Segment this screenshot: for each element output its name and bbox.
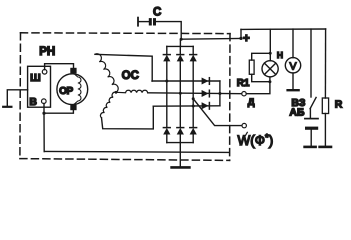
wire ground stem (179, 143, 181, 167)
svg-text:В: В (29, 96, 37, 108)
wire phase C row (153, 105, 220, 107)
ground (regulator) (3, 106, 11, 108)
ground (voltmeter) (288, 89, 299, 91)
wire phase B vertical (179, 61, 181, 127)
svg-text:Ш: Ш (30, 72, 41, 84)
diode VD3 (top right) (190, 46, 197, 61)
capacitor C1 body (149, 18, 156, 25)
svg-text:С: С (153, 7, 161, 19)
wire phase A vertical (166, 61, 168, 127)
wire phase B row (148, 92, 242, 95)
diode VD9 (field, bottom) (202, 102, 210, 109)
wire C left lead (139, 21, 150, 23)
stator winding ОС phase B coil (116, 90, 148, 92)
switch ВЗ (310, 29, 316, 118)
node phase B junction (179, 92, 182, 95)
diode VD5 (bottom middle) (177, 128, 184, 143)
ground (resistor R) (320, 146, 331, 149)
capacitor C1 left terminal bar (137, 18, 139, 26)
wire rail to R (324, 29, 326, 98)
svg-text:R1: R1 (237, 78, 250, 89)
resistor R1 (249, 60, 254, 74)
ground (generator) (172, 166, 190, 169)
diode VD1 (top left) (163, 46, 170, 61)
diode VD4 (bottom left) (163, 128, 170, 143)
node stator star point (115, 91, 118, 94)
svg-text:ОР: ОР (59, 86, 73, 97)
svg-text:РН: РН (39, 46, 55, 58)
svg-text:ОС: ОС (122, 70, 139, 82)
brush bottom (70, 105, 76, 111)
lamp H (262, 29, 278, 77)
voltmeter V (285, 29, 300, 89)
wire rectifier cathode bar (167, 45, 193, 47)
wire riser to top rail (240, 29, 242, 38)
wire plus bus (181, 37, 241, 40)
stator winding ОС phase A coil (95, 54, 118, 93)
generator dashed boundary box (20, 33, 230, 161)
node phase C junction (192, 105, 195, 108)
diode VD7 (field, top) (202, 78, 210, 85)
terminal W (242, 123, 246, 127)
wire phase C bottom lead (102, 106, 154, 129)
diode VD6 (bottom right) (190, 128, 197, 143)
wire Д to lamp (246, 77, 270, 94)
wire phase A row (152, 80, 220, 82)
node junction C to plus bus (180, 38, 183, 41)
voltage regulator РН box (28, 66, 51, 107)
node phase C tap (192, 97, 195, 100)
stator winding ОС phase C coil (100, 92, 116, 118)
wire phase C vertical (192, 61, 194, 127)
wire R1 top (252, 53, 271, 60)
wire Ш to top brush (45, 64, 74, 70)
node R1 lamp top junction (269, 52, 272, 55)
terminal В (42, 99, 47, 104)
wire rectifier anode bar (167, 142, 193, 144)
wire В to bottom brush (44, 103, 73, 113)
label W slash (240, 132, 248, 145)
ground (battery) (305, 146, 316, 149)
terminal Д (242, 92, 246, 96)
rotor ОР circle (57, 74, 88, 105)
wire top rail (241, 28, 326, 30)
node В branch junction (42, 112, 45, 115)
node R1 lamp bottom junction (268, 80, 271, 83)
terminal Ш (42, 70, 47, 75)
svg-text:V: V (289, 60, 296, 72)
diode VD2 (top middle) (177, 46, 184, 61)
wire В to chassis bus (43, 113, 45, 151)
svg-text:АБ: АБ (289, 107, 305, 119)
wire phase A top lead (95, 54, 152, 81)
wire C right lead (156, 22, 182, 40)
wire cathode bar to plus bus (179, 39, 181, 46)
node plus terminal (239, 37, 242, 40)
wire R to ground (324, 114, 326, 147)
wire chassis bus (44, 151, 229, 152)
wire VD9 output up (219, 94, 221, 106)
node field rectifier output (218, 92, 221, 95)
resistor R (322, 98, 328, 114)
svg-text:Н: Н (277, 50, 283, 60)
brush top (70, 68, 76, 74)
wire regulator ground lead (7, 90, 27, 106)
svg-text:Д: Д (248, 97, 255, 108)
svg-text:R: R (335, 99, 343, 111)
wire R1 bottom (252, 74, 270, 81)
rotor field winding coil (74, 73, 82, 105)
diode VD8 (field, middle) (202, 90, 210, 97)
wire VD7 output down (219, 81, 221, 94)
wire diagonal tap to W (193, 99, 242, 126)
svg-text:+: + (243, 33, 250, 45)
node phase A junction (165, 80, 168, 83)
battery АБ (305, 119, 318, 147)
